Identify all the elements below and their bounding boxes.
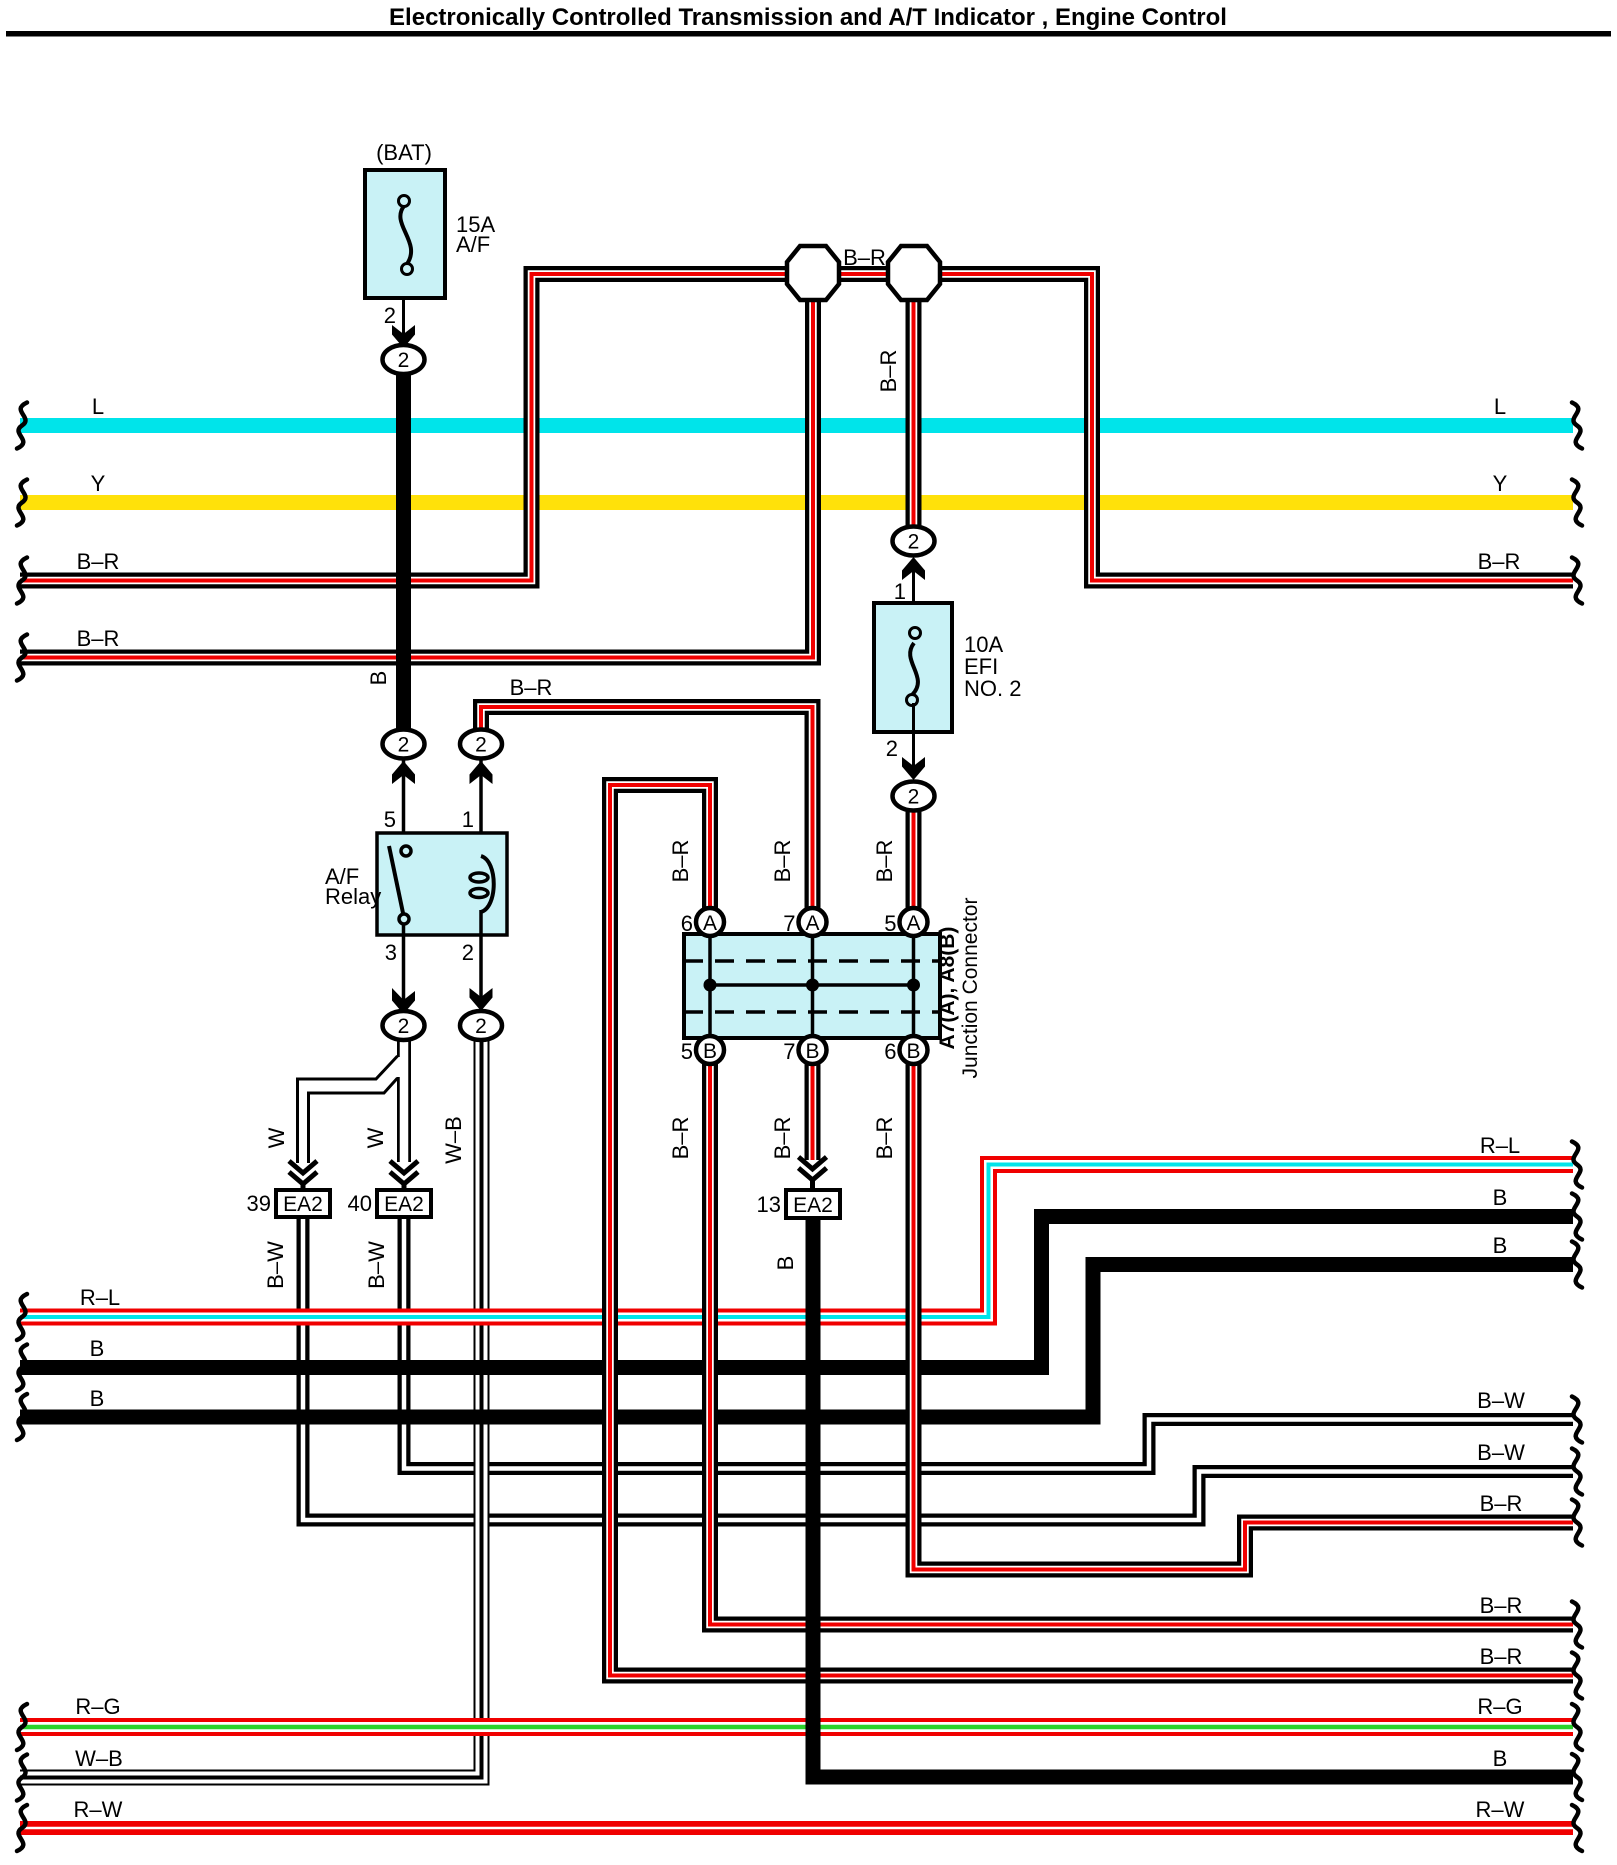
junction pin A5: [900, 908, 928, 936]
wire B from fuse F1 oval down to relay pin 5 oval: [396, 366, 411, 738]
fuse F2 10A EFI NO.2 box: [874, 603, 952, 732]
junction pin A7: [799, 908, 827, 936]
oval connector 2 below relay pin 3: [383, 1011, 425, 1040]
chevron arrow into 40 EA2: [390, 1161, 418, 1191]
svg-text:A: A: [906, 912, 920, 935]
break mark B right: [1572, 1754, 1582, 1800]
svg-text:Y: Y: [1493, 471, 1508, 496]
svg-text:2: 2: [886, 736, 898, 761]
wire B-R from junction B6 down, step right to edge: [914, 1062, 1574, 1570]
svg-text:B: B: [1493, 1233, 1508, 1258]
svg-text:R–L: R–L: [80, 1285, 120, 1310]
connector arrow up at relay pin 1: [470, 761, 493, 784]
wire B-W from 40 EA2 down, step right to edge: [404, 1217, 1573, 1469]
svg-text:B–R: B–R: [668, 1117, 693, 1160]
break mark Y left: [17, 480, 27, 526]
svg-text:2: 2: [398, 1015, 410, 1038]
svg-text:EA2: EA2: [793, 1194, 833, 1217]
wire B-R from octagon 2 down to fuse 2 oval: [906, 278, 922, 529]
svg-text:R–G: R–G: [75, 1694, 120, 1719]
svg-text:13: 13: [757, 1192, 781, 1217]
oval connector 2 below relay pin 2: [460, 1011, 502, 1040]
break mark R-W left: [17, 1805, 27, 1851]
break mark B-W 2 right: [1572, 1449, 1582, 1495]
svg-text:B–R: B–R: [668, 840, 693, 883]
wire pin 1 into relay: [479, 758, 483, 858]
svg-text:L: L: [1494, 394, 1506, 419]
svg-text:Y: Y: [91, 471, 106, 496]
oval connector 2 below fuse F1: [383, 345, 425, 374]
svg-text:(BAT): (BAT): [376, 140, 432, 165]
wire B-R from fuse 2 oval down to junction A5: [906, 809, 922, 912]
svg-text:40: 40: [348, 1191, 372, 1216]
svg-text:1: 1: [462, 807, 474, 832]
junction internal bus solid line: [710, 983, 914, 987]
svg-text:B: B: [1493, 1185, 1508, 1210]
svg-text:B–W: B–W: [1477, 1440, 1525, 1465]
wire-break squiggles left edge: [17, 403, 27, 1852]
connector arrow down at relay pin 2: [470, 988, 493, 1011]
wire pin 2 out of relay: [479, 910, 483, 1020]
wire W from relay pin 3 oval down to 40 EA2 with branch to 39 EA2: [298, 1038, 405, 1163]
svg-text:A: A: [703, 912, 717, 935]
junction pin B5: [696, 1036, 724, 1064]
wire B-R from junction B5 down then right to edge: [710, 1062, 1573, 1625]
connector arrow up at relay pin 5: [392, 761, 415, 784]
svg-text:1: 1: [894, 579, 906, 604]
connector arrow down below fuse F1: [392, 325, 415, 348]
connector arrow up at fuse F2 pin 1: [902, 557, 925, 580]
break mark W-B left: [17, 1755, 27, 1801]
relay switch blade: [389, 846, 403, 913]
svg-text:6: 6: [681, 911, 693, 936]
svg-text:B: B: [90, 1336, 105, 1361]
octagon connector 2: [888, 246, 940, 300]
svg-text:B–R: B–R: [876, 350, 901, 393]
connector arrow down at fuse F2 pin 2: [902, 757, 925, 780]
svg-text:EA2: EA2: [283, 1193, 323, 1216]
svg-text:B–R: B–R: [77, 626, 120, 651]
svg-text:6: 6: [884, 1039, 896, 1064]
svg-text:A/F: A/F: [456, 232, 490, 257]
svg-text:B: B: [805, 1040, 819, 1063]
svg-text:W–B: W–B: [75, 1746, 123, 1771]
svg-text:B: B: [366, 671, 391, 686]
svg-text:EA2: EA2: [384, 1193, 424, 1216]
wire B from 13 EA2 down then right to edge: [813, 1218, 1573, 1777]
break mark L left: [17, 403, 27, 449]
break mark R-L left: [17, 1294, 27, 1340]
junction pin B7: [799, 1036, 827, 1064]
break mark B 2 left: [17, 1394, 27, 1440]
wire W-B from relay pin 2 oval down then left to edge: [20, 1038, 482, 1778]
oval connector 2 above fuse F2: [893, 527, 935, 556]
break mark Y right: [1572, 480, 1582, 526]
svg-text:5: 5: [384, 807, 396, 832]
wire R-W (full width): [20, 1821, 1573, 1835]
svg-text:B–R: B–R: [872, 840, 897, 883]
wire pin 3 out of relay: [402, 923, 406, 1020]
svg-text:Relay: Relay: [325, 884, 381, 909]
svg-text:B–R: B–R: [872, 1117, 897, 1160]
break mark B-R 0 right: [1572, 1500, 1582, 1546]
wire R-L from left edge, up at elbow, to right edge: [20, 1165, 1573, 1318]
break mark B 2 right: [1572, 1242, 1582, 1288]
svg-text:NO. 2: NO. 2: [964, 676, 1021, 701]
svg-text:B–W: B–W: [364, 1241, 389, 1289]
svg-text:W: W: [264, 1127, 289, 1148]
fuse F1 15A A/F box: [365, 170, 445, 298]
svg-text:B–R: B–R: [1478, 549, 1521, 574]
svg-text:2: 2: [462, 940, 474, 965]
svg-text:L: L: [92, 394, 104, 419]
wire B #2 (thick black) left edge, up, to right edge: [20, 1265, 1573, 1418]
svg-text:R–G: R–G: [1477, 1694, 1522, 1719]
oval connector 2 at relay pin 1: [460, 730, 502, 759]
svg-text:B–R: B–R: [510, 675, 553, 700]
svg-text:5: 5: [681, 1039, 693, 1064]
wire B-R from junction B7 down to 13 EA2 arrow: [805, 1062, 821, 1160]
svg-text:B: B: [906, 1040, 920, 1063]
svg-text:A: A: [805, 912, 819, 935]
svg-text:B–R: B–R: [1480, 1644, 1523, 1669]
chevron arrow into 13 EA2: [799, 1157, 827, 1191]
svg-text:W: W: [363, 1127, 388, 1148]
svg-text:5: 5: [884, 911, 896, 936]
wire pin 5 into relay: [402, 758, 406, 848]
svg-text:B–R: B–R: [1480, 1593, 1523, 1618]
svg-text:B–R: B–R: [770, 1117, 795, 1160]
svg-text:B–W: B–W: [263, 1241, 288, 1289]
svg-text:2: 2: [384, 303, 396, 328]
oval connector 2 at relay pin 5: [383, 730, 425, 759]
svg-text:R–W: R–W: [1476, 1797, 1525, 1822]
relay switch contact top: [401, 846, 411, 856]
relay A/F Relay box: [377, 833, 507, 935]
svg-text:2: 2: [908, 786, 920, 809]
junction internal bus dashed lines: [684, 959, 940, 963]
break mark B-R 2 right: [1572, 1653, 1582, 1699]
title underline bar: [6, 31, 1611, 37]
break mark R-W right: [1572, 1805, 1582, 1851]
svg-text:2: 2: [398, 349, 410, 372]
break mark B-R 2 left: [17, 635, 27, 681]
svg-text:W–B: W–B: [441, 1116, 466, 1164]
wire B-R loop from junction A6 up, left, down, right to edge: [610, 785, 1573, 1676]
chevron arrow into 39 EA2: [289, 1161, 317, 1191]
junction internal wires: [708, 936, 712, 1036]
break mark B 1 left: [17, 1345, 27, 1391]
svg-text:39: 39: [247, 1191, 271, 1216]
wire B-R left edge, up to octagon row, across, down, to right edge: [20, 274, 1573, 581]
oval connector 2 below fuse F2: [893, 782, 935, 811]
junction node dots: [704, 979, 717, 992]
svg-text:R–L: R–L: [1480, 1133, 1520, 1158]
svg-text:2: 2: [398, 734, 410, 757]
junction connector A7(A), A8(B) box: [684, 934, 940, 1038]
break mark R-G right: [1572, 1704, 1582, 1750]
pin 2 of fuse F2: [912, 703, 915, 772]
wire B-W from 39 EA2 down, step right to edge: [303, 1217, 1573, 1520]
break mark R-L right: [1572, 1142, 1582, 1188]
svg-text:B: B: [1493, 1746, 1508, 1771]
svg-text:B: B: [773, 1256, 798, 1271]
svg-text:Electronically Controlled Tran: Electronically Controlled Transmission a…: [389, 4, 1227, 31]
svg-text:7: 7: [783, 911, 795, 936]
wire fuse F2 pin 1: [912, 566, 915, 622]
wire L (cyan, full width): [20, 418, 1573, 433]
junction pin B6: [900, 1036, 928, 1064]
svg-text:B–W: B–W: [1477, 1388, 1525, 1413]
break mark L right: [1572, 403, 1582, 449]
ground box 40 EA2: [377, 1190, 431, 1217]
svg-text:Junction Connector: Junction Connector: [959, 898, 982, 1079]
break mark B-W 1 right: [1572, 1397, 1582, 1443]
junction pin A6: [696, 908, 724, 936]
wire-break squiggles right edge: [1572, 403, 1582, 1852]
svg-text:A7(A), A8(B): A7(A), A8(B): [936, 927, 959, 1050]
svg-text:7: 7: [783, 1039, 795, 1064]
break mark B 1 right: [1572, 1194, 1582, 1240]
connector arrow down at relay pin 3: [392, 988, 415, 1014]
wire B-R from left edge to octagon 1 drop: [20, 278, 813, 658]
octagon connector 1: [787, 246, 839, 300]
break mark R-G left: [17, 1704, 27, 1750]
wire Y (yellow, full width): [20, 495, 1573, 510]
svg-text:2: 2: [475, 734, 487, 757]
svg-text:2: 2: [908, 531, 920, 554]
relay switch contact bottom: [399, 914, 409, 924]
svg-text:B–R: B–R: [1480, 1491, 1523, 1516]
break mark B-R right: [1572, 558, 1582, 604]
ground box 13 EA2: [786, 1190, 840, 1218]
svg-text:B–R: B–R: [770, 840, 795, 883]
wire B-R from relay pin 1 oval up and right, down to junction A7: [481, 707, 813, 912]
pin 2 of fuse F1: [402, 298, 405, 340]
svg-text:B: B: [90, 1386, 105, 1411]
svg-text:R–W: R–W: [74, 1797, 123, 1822]
svg-text:2: 2: [475, 1015, 487, 1038]
break mark B-R 1 right: [1572, 1602, 1582, 1648]
wire B #1 (thick black) left edge, up, to right edge: [20, 1217, 1573, 1368]
svg-text:B–R: B–R: [843, 245, 886, 270]
wire R-G (full width): [20, 1718, 1573, 1736]
svg-text:B: B: [703, 1040, 717, 1063]
ground box 39 EA2: [276, 1190, 330, 1217]
svg-text:3: 3: [385, 940, 397, 965]
svg-text:B–R: B–R: [77, 549, 120, 574]
relay coil: [481, 856, 494, 912]
break mark B-R 1 left: [17, 558, 27, 604]
